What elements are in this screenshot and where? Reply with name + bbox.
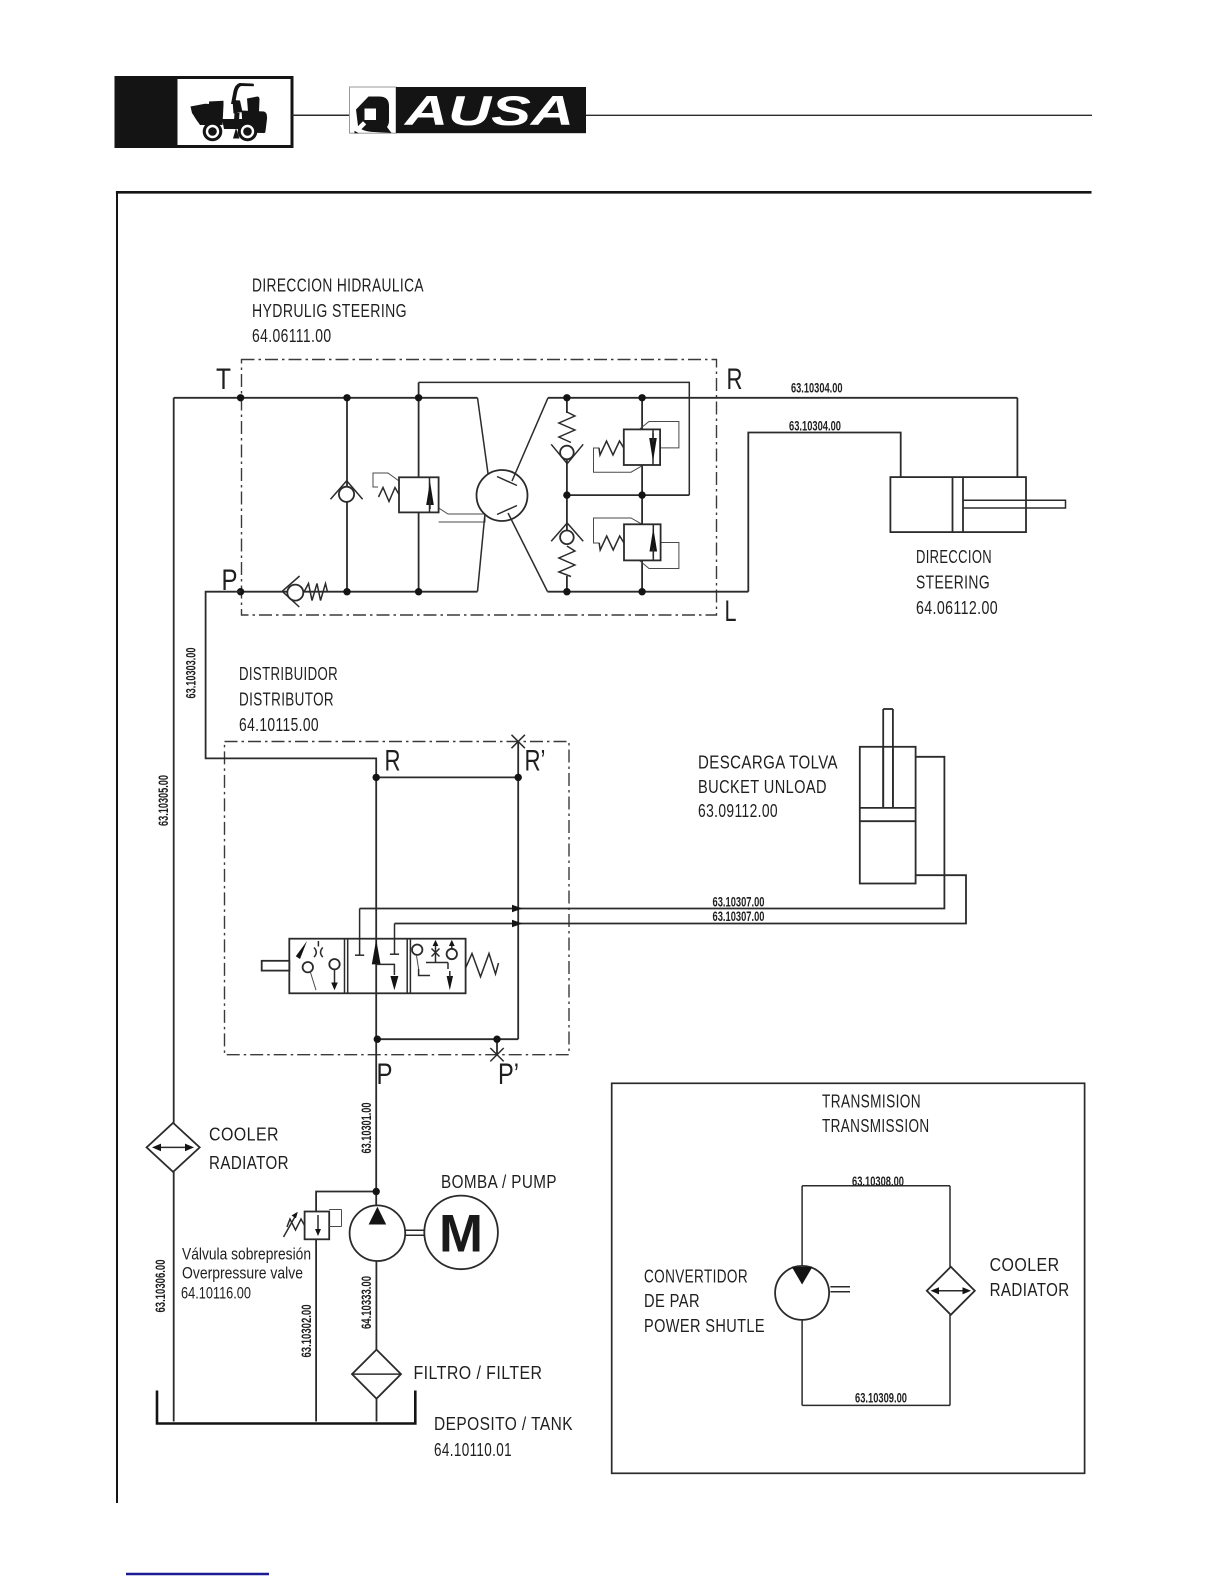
label valvula sobrepresion — [181, 1246, 311, 1303]
page frame top edge — [116, 191, 1092, 194]
anticavitation spring upper — [559, 412, 575, 443]
svg-text:64.06111.00: 64.06111.00 — [252, 326, 332, 346]
svg-text:P: P — [377, 1058, 393, 1091]
steering cylinder 64.06112.00 — [890, 477, 1065, 532]
work line A arrow — [512, 905, 523, 913]
work line B arrow — [512, 920, 523, 928]
wire R line top rail — [548, 397, 1017, 399]
label cooler radiator left — [209, 1125, 289, 1174]
part number labels horizontal — [713, 381, 908, 1406]
svg-text:STEERING: STEERING — [916, 573, 990, 593]
wire R to R' — [376, 776, 518, 778]
distributor valve body — [289, 939, 465, 994]
relief valve V1 — [399, 477, 439, 512]
svg-text:63.10309.00: 63.10309.00 — [855, 1391, 907, 1406]
inlet check valve with spring on P rail — [282, 576, 327, 607]
tank 64.10110.01 — [157, 1391, 415, 1424]
svg-text:63.09112.00: 63.09112.00 — [698, 801, 778, 821]
label direccion steering — [916, 547, 998, 618]
svg-text:T: T — [216, 363, 231, 396]
svg-text:R: R — [385, 745, 401, 778]
label deposito tank — [434, 1414, 573, 1460]
suction line 64.10333.00 — [375, 1261, 377, 1351]
relief valve V1 pilot lines — [373, 473, 485, 522]
dumper logo box — [116, 78, 292, 147]
anticavitation check lower — [551, 523, 583, 544]
AUSA logo emblem box — [350, 87, 397, 133]
svg-text:63.10307.00: 63.10307.00 — [713, 909, 765, 924]
port P' branch — [496, 1039, 498, 1055]
svg-text:64.10333.00: 64.10333.00 — [359, 1276, 374, 1329]
shock relief V2 — [624, 429, 660, 465]
label cooler radiator right — [990, 1255, 1070, 1300]
svg-text:64.06112.00: 64.06112.00 — [916, 598, 998, 618]
svg-text:63.10304.00: 63.10304.00 — [791, 381, 843, 396]
work line stubs into valve — [355, 909, 399, 956]
work line A 63.10307.00 — [360, 757, 945, 909]
svg-text:RADIATOR: RADIATOR — [209, 1153, 289, 1173]
cooler radiator right — [927, 1267, 975, 1315]
inner R loop box — [419, 382, 690, 495]
svg-text:R: R — [727, 363, 743, 396]
svg-text:COOLER: COOLER — [209, 1125, 279, 1145]
label direccion hidraulica — [252, 276, 424, 347]
junction dots distributor — [373, 774, 522, 1043]
main pressure line through valve 63.10301.00 — [375, 777, 377, 1205]
anticavitation check upper — [551, 444, 583, 463]
svg-text:63.10308.00: 63.10308.00 — [852, 1174, 904, 1189]
svg-text:P’: P’ — [498, 1058, 519, 1091]
svg-text:L: L — [725, 595, 737, 628]
valve centre section symbols — [372, 940, 399, 991]
svg-text:POWER SHUTLE: POWER SHUTLE — [644, 1316, 765, 1336]
relief valve V1 spring — [379, 488, 400, 502]
dumper truck icon — [191, 83, 268, 141]
svg-text:Válvula sobrepresión: Válvula sobrepresión — [182, 1246, 311, 1264]
AUSA logo black box with wordmark — [396, 87, 586, 134]
coupling pump-motor — [405, 1230, 424, 1235]
svg-text:DEPOSITO / TANK: DEPOSITO / TANK — [434, 1414, 573, 1434]
bucket cylinder 63.09112.00 — [860, 709, 916, 884]
pump junction dot — [373, 1188, 380, 1195]
mid connection line — [567, 494, 689, 496]
svg-text:DESCARGA TOLVA: DESCARGA TOLVA — [698, 753, 838, 773]
valve lever — [262, 961, 290, 971]
shock relief V2 spring — [599, 441, 624, 455]
wire L bottom rail right — [548, 591, 749, 593]
cooler radiator left — [147, 1123, 200, 1172]
shock relief V3 pilot lines — [594, 518, 679, 569]
svg-text:BOMBA / PUMP: BOMBA / PUMP — [441, 1172, 557, 1192]
wire P rail — [377, 1038, 518, 1040]
svg-text:63.10303.00: 63.10303.00 — [184, 648, 199, 699]
valve left section symbols — [296, 941, 340, 990]
part number labels vertical — [153, 648, 374, 1358]
anticavitation spring lower — [559, 546, 575, 577]
overpressure valve spring — [284, 1212, 305, 1237]
port R' mark — [512, 735, 525, 748]
shock relief branch (x=642.1) — [641, 398, 643, 592]
wire T line — [174, 397, 478, 399]
wire R drop to cylinder — [1016, 398, 1018, 477]
svg-text:63.10307.00: 63.10307.00 — [713, 895, 765, 910]
electric motor M — [424, 1196, 498, 1270]
check valve C1 — [331, 481, 363, 502]
distributor dashed enclosure 64.10115.00 — [225, 742, 570, 1055]
port P' mark — [490, 1048, 503, 1061]
svg-text:63.10306.00: 63.10306.00 — [153, 1260, 168, 1313]
converter coupling — [830, 1287, 850, 1292]
valve return spring — [466, 954, 499, 977]
footer blue rule — [126, 1573, 269, 1575]
wire R' vertical — [517, 742, 519, 1040]
shock relief V3 spring — [599, 536, 624, 550]
svg-text:P: P — [222, 564, 238, 597]
label distribuidor — [239, 664, 338, 735]
filter 64.10333.00 — [352, 1350, 401, 1399]
orbitrol steering rotary meter — [477, 398, 549, 592]
wire P bottom rail left — [241, 591, 478, 593]
svg-text:COOLER: COOLER — [990, 1255, 1060, 1275]
svg-text:DISTRIBUIDOR: DISTRIBUIDOR — [239, 664, 338, 684]
svg-text:AUSA: AUSA — [404, 87, 574, 134]
relief valve branch line (x=418.6) — [418, 382, 420, 591]
svg-text:TRANSMISION: TRANSMISION — [822, 1092, 921, 1112]
line 63.10302.00 — [315, 1239, 317, 1421]
svg-text:TRANSMISSION: TRANSMISSION — [822, 1116, 930, 1136]
port letters — [216, 363, 743, 1091]
svg-text:63.10302.00: 63.10302.00 — [299, 1305, 314, 1358]
tank return line 63.10305.00 / 63.10306.00 (left vertical) — [173, 398, 175, 1422]
steering unit dashed enclosure 64.06111.00 — [242, 360, 717, 616]
header rule right — [586, 114, 1092, 116]
svg-text:M: M — [439, 1205, 483, 1264]
svg-text:RADIATOR: RADIATOR — [990, 1280, 1070, 1300]
svg-text:R’: R’ — [525, 745, 546, 778]
filter to tank line — [376, 1399, 378, 1422]
svg-text:DIRECCION: DIRECCION — [916, 547, 992, 567]
svg-text:64.10110.01: 64.10110.01 — [434, 1440, 512, 1460]
page frame left edge — [116, 191, 118, 1503]
svg-text:DIRECCION HIDRAULICA: DIRECCION HIDRAULICA — [252, 276, 424, 296]
svg-text:HYDRULIG STEERING: HYDRULIG STEERING — [252, 301, 407, 321]
wire L exit to cylinder — [748, 433, 900, 592]
shock relief V3 — [624, 524, 661, 560]
transmission enclosure box — [612, 1083, 1085, 1473]
svg-text:BUCKET UNLOAD: BUCKET UNLOAD — [698, 777, 827, 797]
feed line 63.10303.00 from steering P — [206, 592, 377, 778]
svg-text:64.10116.00: 64.10116.00 — [181, 1285, 251, 1303]
shock relief V2 pilot lines — [594, 422, 679, 473]
valve right section symbols — [412, 940, 457, 990]
work line B 63.10307.00 — [395, 875, 967, 923]
check valve branch line (x=347) — [346, 398, 348, 592]
transmission loop 63.10308.00 / 63.10309.00 — [802, 1186, 950, 1406]
svg-text:63.10305.00: 63.10305.00 — [156, 775, 171, 826]
svg-text:Overpressure valve: Overpressure valve — [182, 1265, 303, 1283]
svg-text:63.10304.00: 63.10304.00 — [789, 419, 841, 434]
label transmision — [822, 1092, 930, 1137]
overpressure valve branch — [316, 1192, 376, 1212]
svg-text:DISTRIBUTOR: DISTRIBUTOR — [239, 690, 334, 710]
overpressure valve 64.10116.00 — [305, 1210, 342, 1240]
shock branch vertical (x=566.9) — [566, 398, 568, 592]
svg-text:63.10301.00: 63.10301.00 — [359, 1103, 374, 1154]
svg-text:DE PAR: DE PAR — [644, 1291, 700, 1311]
torque converter — [775, 1266, 829, 1320]
gear pump — [350, 1205, 406, 1261]
junction dots steering — [237, 394, 646, 595]
label convertidor — [644, 1267, 765, 1337]
header connector line left — [292, 114, 350, 116]
svg-text:FILTRO / FILTER: FILTRO / FILTER — [414, 1363, 543, 1383]
svg-text:CONVERTIDOR: CONVERTIDOR — [644, 1267, 748, 1287]
svg-text:64.10115.00: 64.10115.00 — [239, 715, 319, 735]
label descarga tolva — [698, 753, 838, 822]
